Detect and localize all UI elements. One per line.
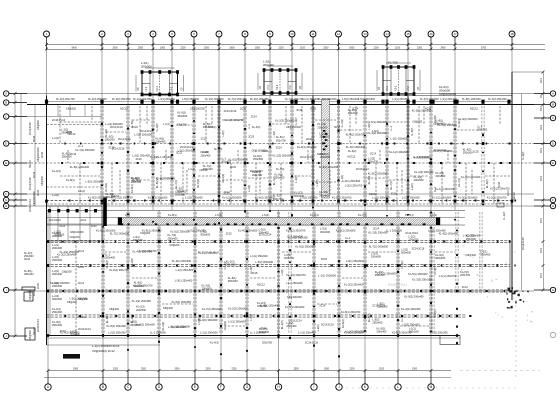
svg-text:H: H — [5, 204, 7, 208]
svg-text:2C14: 2C14 — [352, 108, 359, 111]
svg-text:2500: 2500 — [138, 47, 144, 49]
svg-text:LL-1 200x500: LL-1 200x500 — [413, 155, 429, 159]
svg-text:H: H — [552, 288, 554, 292]
svg-text:200x400: 200x400 — [319, 193, 330, 197]
svg-text:2C20: 2C20 — [91, 226, 97, 228]
svg-text:250x400: 250x400 — [480, 252, 491, 256]
svg-text:N2C12: N2C12 — [257, 284, 265, 287]
svg-text:2C14: 2C14 — [370, 153, 377, 156]
svg-text:KL-3(2): KL-3(2) — [295, 117, 298, 126]
svg-text:2100: 2100 — [379, 369, 385, 371]
svg-text:250x500: 250x500 — [226, 262, 237, 266]
svg-text:KL-2(3) 200x350: KL-2(3) 200x350 — [433, 149, 453, 153]
svg-text:L-3(1): L-3(1) — [294, 176, 298, 183]
svg-text:L-5(2): L-5(2) — [215, 213, 222, 217]
columns corridor — [45, 200, 513, 203]
svg-text:KL-2(3): KL-2(3) — [221, 174, 225, 183]
svg-text:3C18: 3C18 — [334, 126, 341, 129]
svg-text:2600: 2600 — [541, 105, 543, 111]
svg-text:N2C12: N2C12 — [317, 153, 325, 156]
svg-text:L-3(1) 200x350: L-3(1) 200x350 — [158, 98, 176, 101]
svg-text:KL-6(2) 250x500: KL-6(2) 250x500 — [344, 330, 364, 334]
svg-text:L-3(1) 200x350: L-3(1) 200x350 — [392, 98, 410, 101]
svg-text:C8@100/200: C8@100/200 — [33, 191, 36, 206]
upper-left small rooms verticals — [58, 105, 85, 117]
svg-text:250x500: 250x500 — [52, 284, 63, 288]
svg-text:L-1(1) 250x500: L-1(1) 250x500 — [318, 274, 336, 278]
svg-text:3C18: 3C18 — [136, 158, 143, 161]
svg-text:KL-4(3): KL-4(3) — [52, 169, 61, 173]
second top label row — [66, 108, 478, 111]
horizontal grid line B — [27, 104, 534, 106]
svg-text:LT-1: LT-1 — [145, 86, 148, 91]
svg-text:N2C12: N2C12 — [78, 316, 86, 319]
svg-text:KL-8(1) 200x500: KL-8(1) 200x500 — [336, 229, 356, 233]
svg-text:N2C12: N2C12 — [348, 156, 356, 159]
wall chunk — [103, 198, 107, 227]
svg-text:3C18: 3C18 — [391, 192, 398, 195]
svg-text:250x400: 250x400 — [52, 323, 63, 327]
svg-text:KL-5(1) 200x700: KL-5(1) 200x700 — [332, 196, 352, 200]
vertical grid lines upper — [47, 49, 513, 210]
svg-text:250x600: 250x600 — [52, 258, 63, 262]
svg-text:200x350: 200x350 — [175, 192, 186, 196]
svg-text:KL-9(2) 250x500: KL-9(2) 250x500 — [112, 98, 131, 101]
svg-text:G: G — [5, 198, 7, 202]
svg-text:N2C12: N2C12 — [369, 193, 377, 196]
top dimension numbers — [72, 47, 487, 49]
svg-text:L-2(2) 200x350: L-2(2) 200x350 — [108, 330, 126, 334]
svg-text:300x600: 300x600 — [52, 297, 63, 301]
svg-text:L-5(2): L-5(2) — [197, 318, 201, 325]
svg-text:4C16: 4C16 — [78, 266, 85, 269]
svg-text:L: L — [397, 385, 399, 389]
top dimension ticks — [45, 43, 513, 50]
faint SE dashes — [340, 300, 540, 388]
left outside texts — [24, 252, 34, 276]
svg-text:3C18: 3C18 — [33, 135, 36, 142]
svg-text:2C12: 2C12 — [70, 152, 77, 156]
lower-left column blocks — [52, 231, 63, 327]
svg-text:L-2(2) 200x500: L-2(2) 200x500 — [134, 133, 152, 137]
svg-text:KL-4(3) 200x700: KL-4(3) 200x700 — [286, 273, 306, 277]
svg-text:L-2(2): L-2(2) — [222, 130, 225, 137]
svg-text:200x400: 200x400 — [52, 246, 63, 250]
svg-text:2C20: 2C20 — [306, 138, 313, 141]
svg-text:L-2(2): L-2(2) — [430, 213, 437, 217]
svg-text:LT-2: LT-2 — [289, 85, 292, 90]
svg-text:KL-6(2): KL-6(2) — [155, 179, 159, 188]
svg-text:KL-3(2): KL-3(2) — [434, 266, 437, 275]
svg-text:KZ-1: KZ-1 — [276, 84, 279, 90]
svg-text:200x700: 200x700 — [284, 256, 295, 260]
upper vertical labels — [104, 115, 489, 193]
slab band top — [47, 217, 466, 219]
svg-text:KL-5(1) 200x400: KL-5(1) 200x400 — [260, 304, 280, 308]
svg-text:2600: 2600 — [541, 124, 543, 130]
svg-text:2C14: 2C14 — [224, 191, 231, 194]
svg-text:L-2(2) 200x700: L-2(2) 200x700 — [345, 184, 363, 188]
svg-text:KL-1(2) 300x600: KL-1(2) 300x600 — [389, 150, 409, 154]
svg-text:2C16;2C14: 2C16;2C14 — [289, 320, 302, 323]
svg-text:KL-1(2): KL-1(2) — [503, 211, 506, 220]
svg-text:KZ-1: KZ-1 — [156, 85, 159, 91]
svg-text:2C20: 2C20 — [66, 130, 73, 134]
svg-text:B: B — [102, 385, 104, 389]
svg-text:2C12: 2C12 — [507, 190, 510, 196]
svg-text:KL-3(2): KL-3(2) — [522, 151, 525, 160]
svg-text:KL-2(3) 200x500: KL-2(3) 200x500 — [228, 306, 248, 310]
right axis bubbles — [550, 91, 555, 293]
svg-text:KL-8(1) 200x350: KL-8(1) 200x350 — [297, 145, 317, 149]
svg-text:C8@200: C8@200 — [412, 120, 423, 123]
svg-text:L-2(2): L-2(2) — [281, 269, 284, 276]
svg-text:KL-3(2) 300x600: KL-3(2) 300x600 — [458, 196, 478, 200]
svg-text:C8@100/200: C8@100/200 — [190, 108, 205, 111]
svg-text:2500: 2500 — [205, 369, 211, 371]
svg-text:2400: 2400 — [440, 47, 446, 49]
short horizontal beams upper cells — [60, 120, 510, 182]
svg-text:KL-3(2): KL-3(2) — [156, 123, 159, 132]
svg-text:KL-6(2): KL-6(2) — [150, 156, 159, 159]
svg-text:B988-7041: B988-7041 — [388, 282, 408, 287]
svg-text:L-3(1): L-3(1) — [368, 123, 371, 130]
svg-text:250x600: 250x600 — [371, 255, 382, 259]
svg-text:KL-1(2) 200x500: KL-1(2) 200x500 — [198, 251, 218, 255]
svg-text:2C14;3C16: 2C14;3C16 — [29, 122, 32, 135]
svg-text:C8@200: C8@200 — [66, 108, 77, 111]
svg-text:KL-2(3): KL-2(3) — [161, 322, 165, 331]
svg-text:KL-2(3) 200x400: KL-2(3) 200x400 — [414, 170, 434, 174]
svg-text:200x700: 200x700 — [262, 341, 273, 345]
svg-text:C8@200: C8@200 — [37, 119, 40, 130]
svg-text:KL-4(3) 250x600: KL-4(3) 250x600 — [238, 229, 258, 233]
svg-text:2500: 2500 — [141, 369, 147, 371]
unit wall verticals — [219, 96, 408, 207]
svg-text:200x500: 200x500 — [317, 125, 328, 129]
svg-text:2650: 2650 — [349, 47, 355, 49]
svg-text:L-5(2): L-5(2) — [372, 130, 379, 133]
svg-text:L-2(2): L-2(2) — [105, 129, 108, 136]
svg-text:LL-1: LL-1 — [78, 144, 84, 148]
svg-text:KL-5(1) 200x350: KL-5(1) 200x350 — [172, 300, 192, 304]
svg-text:KL-9(2): KL-9(2) — [411, 127, 414, 136]
svg-text:KL-1(2) 300x600: KL-1(2) 300x600 — [205, 98, 224, 101]
partial beam y124.5 — [47, 124, 103, 126]
svg-text:KL-4(3) 200x500: KL-4(3) 200x500 — [420, 98, 439, 101]
svg-text:250x600: 250x600 — [320, 134, 331, 138]
svg-text:2C14;3C16: 2C14;3C16 — [321, 323, 334, 326]
svg-text:250x400: 250x400 — [168, 236, 179, 240]
svg-text:KL-8(1): KL-8(1) — [105, 314, 109, 323]
top dimension line lower — [47, 49, 546, 51]
horizontal hatched slab band — [118, 218, 440, 226]
svg-text:300x600: 300x600 — [320, 230, 331, 234]
svg-text:L-1(1): L-1(1) — [163, 123, 170, 126]
svg-text:L-1(1): L-1(1) — [188, 168, 195, 171]
svg-text:KL-4(3): KL-4(3) — [310, 213, 319, 217]
svg-text:200x350: 200x350 — [477, 127, 488, 131]
svg-text:L-2(2) 200x700: L-2(2) 200x700 — [115, 196, 133, 200]
svg-text:2600: 2600 — [541, 272, 543, 278]
svg-text:2600: 2600 — [541, 77, 543, 83]
svg-text:L-3(1) 200x700: L-3(1) 200x700 — [440, 98, 458, 101]
svg-text:C8@100/200: C8@100/200 — [439, 92, 456, 96]
svg-text:2200: 2200 — [349, 369, 355, 371]
svg-text:2C16;2C14: 2C16;2C14 — [29, 199, 32, 212]
right dim vertical labels — [513, 151, 525, 250]
svg-text:L-1(1) 200x500: L-1(1) 200x500 — [200, 330, 218, 334]
svg-text:KL-6(2) 200x350: KL-6(2) 200x350 — [156, 176, 176, 180]
svg-text:5400: 5400 — [72, 47, 78, 49]
svg-text:200x500: 200x500 — [414, 178, 425, 182]
svg-text:2C14: 2C14 — [78, 282, 85, 285]
svg-text:2C20: 2C20 — [248, 136, 255, 139]
svg-text:L-1(1) 200x700: L-1(1) 200x700 — [439, 274, 457, 278]
svg-text:N2C12: N2C12 — [470, 108, 478, 111]
svg-text:KL-7(2): KL-7(2) — [174, 180, 178, 189]
corridor line y210.5 — [47, 210, 466, 212]
svg-text:KL-2(3) 200x350: KL-2(3) 200x350 — [412, 278, 432, 282]
svg-text:L-2(2): L-2(2) — [316, 324, 320, 331]
lower-left divider — [75, 242, 77, 336]
svg-text:250x500: 250x500 — [463, 150, 474, 154]
row y291 — [47, 290, 511, 292]
svg-text:L-5(2) 250x600: L-5(2) 250x600 — [342, 98, 360, 101]
svg-text:L-5(2) 250x600: L-5(2) 250x600 — [402, 322, 420, 326]
svg-text:200x500: 200x500 — [134, 284, 145, 288]
svg-text:18: 18 — [510, 32, 514, 36]
slab band bottom — [47, 224, 466, 226]
columns lower rows — [47, 240, 458, 337]
svg-text:2600: 2600 — [541, 92, 543, 98]
svg-text:2600: 2600 — [541, 175, 543, 181]
top dimension line upper — [47, 44, 546, 46]
extra short verticals upper — [60, 106, 494, 205]
svg-text:C8@100/200: C8@100/200 — [70, 232, 84, 234]
columns upper mid rows — [101, 142, 485, 165]
svg-text:200x500: 200x500 — [133, 238, 144, 242]
svg-text:C8@200: C8@200 — [29, 289, 32, 300]
svg-text:2C16;2C14: 2C16;2C14 — [372, 305, 385, 308]
bottom dimension line — [48, 370, 451, 372]
svg-text:KL-5(1): KL-5(1) — [405, 213, 414, 217]
svg-text:2500: 2500 — [255, 47, 261, 49]
svg-text:2600: 2600 — [541, 217, 543, 223]
svg-text:KL-2(3) 250x500: KL-2(3) 250x500 — [88, 98, 107, 101]
svg-text:2C12: 2C12 — [81, 220, 87, 222]
svg-text:L-1(1): L-1(1) — [52, 136, 59, 140]
svg-text:KL-4(3): KL-4(3) — [367, 176, 371, 185]
beam specks vertical — [101, 120, 484, 224]
svg-text:KL-2(3): KL-2(3) — [223, 321, 227, 330]
svg-text:L-2(2): L-2(2) — [410, 183, 414, 190]
svg-text:KL-5(1) 300x600: KL-5(1) 300x600 — [408, 272, 428, 276]
svg-text:2C14;3C16: 2C14;3C16 — [300, 156, 313, 159]
svg-text:KL-6(2): KL-6(2) — [348, 150, 357, 153]
svg-text:KL-8(1) 200x700: KL-8(1) 200x700 — [341, 310, 361, 314]
svg-text:17: 17 — [453, 32, 457, 36]
svg-text:LL-1: LL-1 — [390, 125, 393, 131]
svg-text:C8@200(2) 2C12: C8@200(2) 2C12 — [92, 349, 115, 353]
svg-text:3C18: 3C18 — [108, 146, 115, 149]
svg-text:2C16;2C14: 2C16;2C14 — [52, 118, 66, 122]
svg-text:15: 15 — [406, 32, 410, 36]
svg-text:2C12: 2C12 — [462, 286, 469, 289]
svg-text:KL-6(2): KL-6(2) — [196, 179, 200, 188]
svg-text:L-5(2) 200x500: L-5(2) 200x500 — [358, 98, 376, 101]
row y316 — [47, 315, 467, 317]
svg-text:KL-9(2): KL-9(2) — [250, 265, 253, 274]
svg-text:KL-3(2) 250x600: KL-3(2) 250x600 — [488, 98, 507, 101]
svg-text:2C14;3C16: 2C14;3C16 — [224, 110, 237, 113]
lower cells annotations — [50, 227, 491, 337]
svg-text:KL-5(1) 250x600: KL-5(1) 250x600 — [229, 158, 249, 162]
svg-text:300x600: 300x600 — [177, 114, 188, 118]
svg-text:G: G — [552, 204, 554, 208]
svg-text:KL-9(2) 200x400: KL-9(2) 200x400 — [404, 295, 424, 299]
svg-text:3C18: 3C18 — [296, 109, 303, 112]
svg-text:16: 16 — [429, 32, 433, 36]
svg-text:11: 11 — [311, 32, 314, 36]
svg-text:KL-8(1) 200x500: KL-8(1) 200x500 — [462, 98, 481, 101]
svg-text:2C14;3C16: 2C14;3C16 — [305, 341, 319, 345]
svg-text:KL-9(2) 200x350: KL-9(2) 200x350 — [250, 98, 269, 101]
svg-text:LT-1: LT-1 — [267, 85, 270, 90]
svg-text:KL-3(2) 250x400: KL-3(2) 250x400 — [57, 252, 77, 256]
below-plan annotations — [63, 341, 319, 359]
bottom inner row labels — [60, 330, 448, 334]
corridor top labels — [88, 196, 507, 200]
top edge labels — [56, 98, 507, 101]
grid line y206 — [27, 205, 534, 207]
svg-text:2C20: 2C20 — [37, 282, 40, 289]
svg-text:LL-1: LL-1 — [248, 124, 251, 130]
svg-text:C8@200: C8@200 — [169, 244, 180, 247]
right edge lower — [509, 242, 511, 292]
svg-text:F: F — [220, 385, 222, 389]
band bottom dashes — [120, 223, 426, 225]
svg-text:LT-2: LT-2 — [407, 86, 410, 91]
left edge — [46, 96, 48, 346]
row y241.5 — [47, 240, 511, 242]
svg-text:C: C — [552, 116, 554, 120]
stair core 1 — [136, 68, 184, 96]
svg-text:KL-2(3) 250x400: KL-2(3) 250x400 — [368, 230, 388, 234]
svg-text:KL-2(3): KL-2(3) — [280, 320, 284, 329]
upper middle extra labels — [110, 123, 379, 171]
svg-text:C8@200: C8@200 — [163, 307, 174, 310]
svg-text:KL-6(2): KL-6(2) — [341, 319, 345, 328]
svg-text:KL-1(2) 200x500: KL-1(2) 200x500 — [222, 196, 242, 200]
svg-text:KL-3(2): KL-3(2) — [434, 115, 437, 124]
svg-text:2C16;2C14: 2C16;2C14 — [259, 233, 272, 236]
svg-text:L-1(1) 250x400: L-1(1) 250x400 — [298, 330, 316, 334]
svg-text:LL-1: LL-1 — [400, 316, 404, 322]
svg-text:KL-6(2): KL-6(2) — [131, 258, 134, 267]
svg-text:2600: 2600 — [541, 147, 543, 153]
svg-text:250x400: 250x400 — [274, 176, 285, 180]
svg-text:KL-1(2) 200x700: KL-1(2) 200x700 — [224, 118, 244, 122]
svg-text:2C14: 2C14 — [78, 250, 85, 253]
svg-text:2500: 2500 — [204, 47, 210, 49]
watermark smudge — [388, 265, 474, 301]
svg-text:L-2(2) 200x400: L-2(2) 200x400 — [132, 154, 150, 158]
vertical grid lines lower — [48, 210, 431, 371]
svg-text:KL-2(3) 250x400: KL-2(3) 250x400 — [344, 282, 364, 286]
svg-text:KL-3(2): KL-3(2) — [252, 126, 261, 129]
svg-text:200x500: 200x500 — [202, 287, 213, 291]
right top dim — [512, 71, 543, 73]
svg-text:KL-9(2): KL-9(2) — [485, 179, 489, 188]
svg-text:L-2(2) 200x500: L-2(2) 200x500 — [185, 196, 203, 200]
svg-text:KL-8(1) 250x400: KL-8(1) 250x400 — [70, 165, 90, 169]
svg-text:2C14;3C16: 2C14;3C16 — [140, 130, 153, 133]
svg-text:200x400: 200x400 — [263, 63, 274, 67]
svg-text:L-1(1) 250x400: L-1(1) 250x400 — [372, 196, 390, 200]
svg-text:200x700: 200x700 — [131, 179, 142, 183]
svg-text:KL-4(3) 300x600: KL-4(3) 300x600 — [60, 330, 80, 334]
svg-text:LL-1: LL-1 — [125, 213, 131, 217]
svg-text:LT-2: LT-2 — [171, 86, 174, 91]
svg-text:KL-1(2) 200x500: KL-1(2) 200x500 — [133, 98, 152, 101]
svg-text:2C14: 2C14 — [276, 147, 283, 150]
svg-text:L-3(1) 250x600: L-3(1) 250x600 — [346, 259, 364, 263]
svg-text:L-1(1) 200x700: L-1(1) 200x700 — [139, 249, 157, 253]
svg-text:KL-5(1): KL-5(1) — [208, 126, 217, 129]
vertical beam lines lower — [102, 212, 482, 334]
svg-text:2C16;2C14: 2C16;2C14 — [180, 146, 193, 149]
beam row y163 — [27, 162, 534, 164]
svg-text:L-5(2) 300x600: L-5(2) 300x600 — [255, 260, 273, 264]
svg-text:2100: 2100 — [300, 47, 306, 49]
right margin annotations — [497, 181, 510, 220]
svg-text:200x500: 200x500 — [141, 64, 152, 68]
svg-text:KL-7(2) 300x600: KL-7(2) 300x600 — [110, 232, 130, 236]
corridor inner labels — [125, 213, 437, 217]
svg-text:E: E — [552, 161, 554, 165]
svg-text:KL-7(2): KL-7(2) — [389, 181, 393, 190]
svg-text:KL-5(1) 250x500: KL-5(1) 250x500 — [170, 230, 190, 234]
left secondary — [34, 105, 36, 207]
svg-text:2C14;3C16: 2C14;3C16 — [412, 248, 425, 251]
svg-text:KL-9(2) 200x500: KL-9(2) 200x500 — [458, 117, 478, 121]
svg-text:KL-6(2): KL-6(2) — [104, 183, 108, 192]
partial beam y187 — [47, 186, 103, 188]
svg-text:C8@200: C8@200 — [466, 254, 477, 257]
svg-text:L-1(1) 250x600: L-1(1) 250x600 — [228, 320, 246, 324]
svg-text:KL-5(1) 200x700: KL-5(1) 200x700 — [392, 330, 412, 334]
svg-text:2650: 2650 — [324, 369, 330, 371]
svg-text:2C16;2C14: 2C16;2C14 — [356, 168, 369, 171]
svg-text:D: D — [552, 142, 554, 146]
svg-text:250x400: 250x400 — [24, 273, 34, 276]
svg-text:2C20: 2C20 — [230, 166, 237, 169]
svg-text:KL-2(3) 200x700: KL-2(3) 200x700 — [56, 98, 75, 101]
svg-text:2550: 2550 — [323, 47, 329, 49]
svg-text:2600: 2600 — [229, 47, 235, 49]
svg-text:2100: 2100 — [260, 369, 266, 371]
svg-text:2C20: 2C20 — [226, 233, 233, 236]
svg-text:LL-1 250x400: LL-1 250x400 — [287, 281, 303, 285]
left strip room labels — [52, 118, 85, 197]
top edge inner line — [47, 101, 513, 103]
svg-text:C8@200: C8@200 — [70, 236, 81, 239]
svg-text:L-2(2): L-2(2) — [52, 193, 59, 197]
svg-text:2C20: 2C20 — [33, 289, 36, 296]
bottom axis bubbles — [45, 384, 434, 390]
svg-text:KL-1(2) 200x350: KL-1(2) 200x350 — [132, 299, 152, 303]
